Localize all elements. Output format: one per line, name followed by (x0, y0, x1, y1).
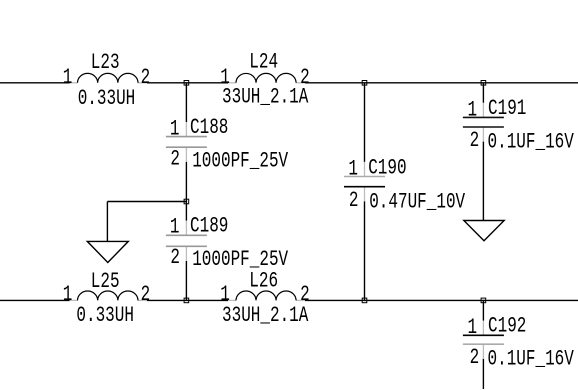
svg-text:0.1UF_16V: 0.1UF_16V (488, 346, 575, 371)
svg-text:33UH_2.1A: 33UH_2.1A (222, 84, 309, 109)
svg-text:2: 2 (170, 146, 180, 171)
svg-text:2: 2 (170, 245, 180, 270)
wire bottom net right segment (305, 299, 578, 301)
capacitor C189 (166, 234, 207, 236)
wire C190 to bottom net (364, 201, 366, 300)
svg-text:L25: L25 (91, 268, 120, 293)
pin stubs C189 (185, 221, 187, 236)
svg-text:L23: L23 (91, 49, 120, 74)
wire bottom net between L25 and L26 (147, 299, 228, 301)
pin stubs L26 (228, 299, 236, 301)
svg-text:C190: C190 (368, 155, 406, 180)
junction node bottom L25/L26/C189 (184, 298, 189, 303)
pin stubs C191 (482, 103, 484, 118)
svg-text:C189: C189 (190, 213, 228, 238)
svg-text:1: 1 (63, 65, 73, 90)
pin stubs C190 (364, 162, 366, 177)
wire top net between L23 and L24 (147, 82, 228, 84)
inductor L23 (78, 73, 139, 82)
svg-text:0.47UF_10V: 0.47UF_10V (369, 189, 465, 214)
wire below C192 going off-page (482, 359, 484, 389)
svg-text:C191: C191 (488, 96, 526, 121)
capacitor C188 (166, 136, 207, 138)
wire C191 to right ground (482, 142, 484, 221)
junction node bottom C190 (362, 298, 367, 303)
svg-text:1: 1 (63, 282, 73, 307)
junction node top L23/L24/C188 (184, 81, 189, 86)
wire from top net to C191 (482, 83, 484, 103)
junction node mid C188/C189/ground (184, 199, 189, 204)
svg-text:1: 1 (467, 97, 477, 122)
svg-text:0.1UF_16V: 0.1UF_16V (488, 129, 575, 154)
svg-text:2: 2 (470, 128, 480, 153)
svg-text:33UH_2.1A: 33UH_2.1A (222, 303, 309, 328)
ground symbol right (464, 221, 504, 241)
wire mid junction to left ground horizontal (107, 201, 186, 203)
capacitor C191 (463, 116, 504, 118)
svg-text:1000PF_25V: 1000PF_25V (192, 148, 288, 173)
wire C189 to bottom net (185, 261, 187, 301)
wire mid junction to C189 (185, 202, 187, 221)
svg-text:L24: L24 (249, 49, 278, 74)
svg-text:2: 2 (349, 188, 359, 213)
inductor L26 (236, 291, 296, 300)
junction node bottom C192 (481, 298, 486, 303)
svg-text:0.33UH: 0.33UH (78, 85, 136, 110)
svg-text:2: 2 (141, 282, 151, 307)
svg-text:2: 2 (470, 345, 480, 370)
svg-text:C188: C188 (190, 115, 228, 140)
svg-text:1: 1 (170, 214, 180, 239)
svg-text:L26: L26 (249, 268, 278, 293)
pin stubs L25 (70, 299, 78, 301)
inductor L25 (78, 291, 139, 300)
pin stubs C188 (185, 122, 187, 137)
wire from top net to C190 (364, 83, 366, 162)
wire top net left segment (0, 82, 70, 84)
svg-text:1: 1 (170, 116, 180, 141)
ground symbol left (87, 241, 128, 262)
capacitor C190 (344, 176, 385, 178)
svg-text:1000PF_25V: 1000PF_25V (192, 247, 288, 272)
svg-text:1: 1 (348, 156, 358, 181)
pin stubs L24 (228, 82, 236, 84)
wire top net right segment (305, 82, 578, 84)
svg-text:0.33UH: 0.33UH (76, 303, 134, 328)
svg-text:1: 1 (467, 315, 477, 340)
wire from top net to C188 (185, 83, 187, 122)
junction node top C191 (481, 81, 486, 86)
inductor L24 (236, 73, 296, 82)
wire from bottom net to C192 (482, 300, 484, 320)
wire C188 to mid junction (185, 162, 187, 202)
wire down to left ground (106, 202, 108, 242)
pin stubs C192 (482, 321, 484, 336)
capacitor C192 (463, 334, 504, 336)
wire bottom net left segment (0, 299, 70, 301)
svg-text:2: 2 (141, 65, 151, 90)
svg-text:C192: C192 (488, 313, 526, 338)
pin stubs L23 (70, 82, 78, 84)
junction node top C190 (362, 81, 367, 86)
